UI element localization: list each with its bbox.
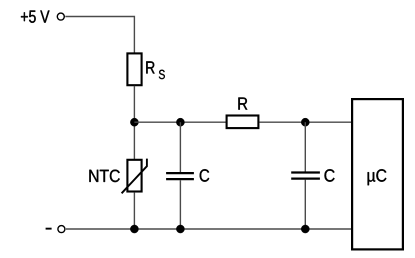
capacitor C1 bbox=[166, 173, 194, 179]
wire NTC to bottom rail bbox=[133, 192, 135, 229]
terminal +5V bbox=[57, 13, 64, 20]
node B (left capacitor tap) bbox=[176, 118, 184, 126]
thermistor NTC bbox=[122, 159, 147, 194]
node D (NTC bottom) bbox=[130, 225, 138, 233]
label C1 bbox=[200, 169, 210, 182]
wire top rail right bbox=[260, 121, 353, 123]
label uC bbox=[368, 169, 387, 185]
terminal minus bbox=[58, 226, 65, 233]
wire top rail left bbox=[134, 121, 226, 123]
wire top feed bbox=[65, 17, 134, 53]
wire RS to NTC bbox=[133, 86, 135, 159]
label NTC bbox=[89, 170, 119, 183]
label +5V bbox=[21, 11, 50, 23]
label RS bbox=[146, 61, 165, 79]
node F (right cap bottom) bbox=[301, 225, 309, 233]
wire right cap bottom lead bbox=[304, 180, 306, 229]
label minus bbox=[46, 228, 52, 230]
node E (left cap bottom) bbox=[176, 225, 184, 233]
resistor R bbox=[227, 116, 259, 129]
label C2 bbox=[325, 169, 335, 182]
capacitor C2 bbox=[291, 173, 320, 179]
wire right cap top lead bbox=[304, 122, 306, 171]
wire left cap top lead bbox=[179, 122, 181, 172]
label R bbox=[238, 98, 247, 110]
node C (right capacitor tap) bbox=[301, 118, 309, 126]
wire left cap bottom lead bbox=[179, 180, 181, 229]
microcontroller uC bbox=[352, 99, 403, 249]
wire bottom rail bbox=[66, 228, 352, 230]
resistor RS bbox=[127, 53, 141, 85]
node A (divider tap) bbox=[130, 118, 138, 126]
